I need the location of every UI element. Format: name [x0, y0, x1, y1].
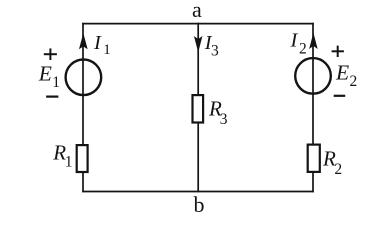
resistor R1 — [77, 145, 88, 172]
svg-text:E: E — [335, 61, 349, 85]
polarity plus E1 — [44, 48, 57, 60]
polarity minus E1 — [46, 95, 58, 97]
svg-text:2: 2 — [350, 73, 358, 90]
svg-text:1: 1 — [103, 42, 111, 58]
svg-text:b: b — [194, 192, 205, 217]
svg-text:1: 1 — [52, 74, 60, 91]
voltage source E2 — [295, 58, 331, 94]
wire bottom bus (node b rail) — [82, 191, 314, 193]
svg-text:2: 2 — [299, 41, 307, 58]
svg-text:1: 1 — [65, 154, 73, 171]
resistor R3 — [193, 95, 204, 122]
wire middle branch vertical — [197, 23, 199, 193]
wire right branch vertical — [312, 23, 314, 193]
svg-text:2: 2 — [334, 161, 342, 178]
voltage source E1 — [66, 60, 102, 96]
current arrow I3 — [195, 37, 202, 51]
polarity minus E2 — [334, 95, 346, 97]
polarity plus E2 — [332, 46, 344, 57]
svg-text:3: 3 — [211, 43, 219, 60]
wire top bus (node a rail) — [82, 23, 314, 25]
svg-text:E: E — [38, 61, 52, 85]
resistor R2 — [308, 145, 320, 172]
svg-text:I: I — [93, 32, 102, 54]
svg-text:I: I — [290, 29, 299, 51]
wire left branch vertical — [82, 23, 84, 193]
current arrow I2 — [310, 34, 317, 48]
svg-text:a: a — [192, 0, 202, 22]
current arrow I1 — [80, 35, 87, 48]
svg-text:3: 3 — [220, 111, 228, 128]
